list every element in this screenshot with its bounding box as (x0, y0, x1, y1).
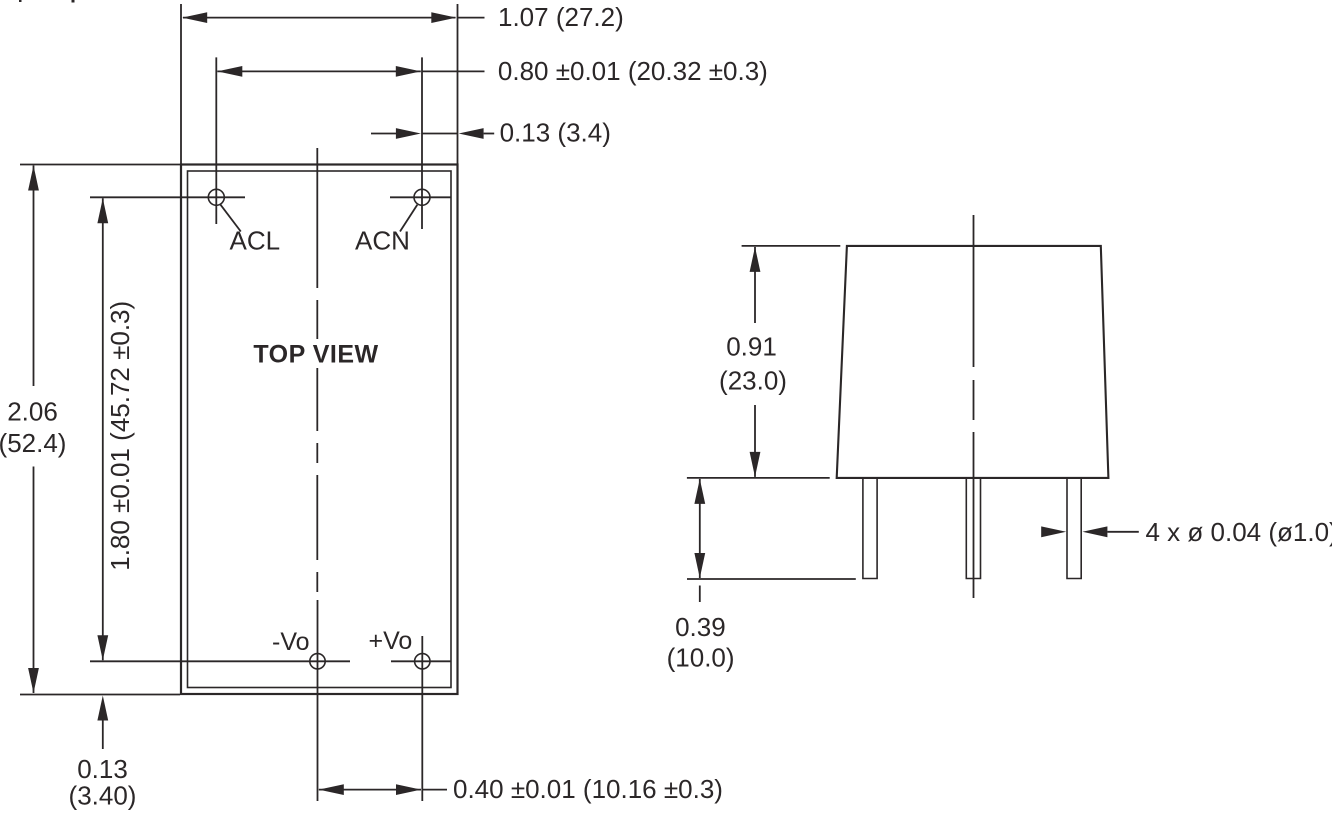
svg-text:0.39: 0.39 (675, 612, 726, 642)
svg-text:+Vo: +Vo (369, 627, 413, 655)
svg-text:0.91: 0.91 (726, 332, 777, 362)
svg-text:0.80 ±0.01 (20.32 ±0.3): 0.80 ±0.01 (20.32 ±0.3) (498, 56, 768, 86)
svg-text:-Vo: -Vo (272, 628, 310, 656)
svg-text:(23.0): (23.0) (719, 365, 787, 395)
svg-text:(3.40): (3.40) (69, 780, 137, 810)
svg-text:ACN: ACN (355, 226, 410, 256)
svg-text:(52.4): (52.4) (0, 428, 66, 458)
svg-text:0.40 ±0.01 (10.16 ±0.3): 0.40 ±0.01 (10.16 ±0.3) (453, 774, 723, 804)
svg-text:1.07 (27.2): 1.07 (27.2) (498, 2, 624, 32)
svg-text:ACL: ACL (230, 226, 281, 256)
svg-text:4 x ø 0.04 (ø1.0): 4 x ø 0.04 (ø1.0) (1146, 517, 1332, 547)
svg-text:(10.0): (10.0) (667, 642, 735, 672)
svg-text:0.13 (3.4): 0.13 (3.4) (500, 118, 611, 148)
svg-text:2.06: 2.06 (7, 397, 58, 427)
svg-text:1.80 ±0.01 (45.72 ±0.3): 1.80 ±0.01 (45.72 ±0.3) (105, 301, 135, 571)
svg-text:TOP VIEW: TOP VIEW (253, 341, 378, 369)
